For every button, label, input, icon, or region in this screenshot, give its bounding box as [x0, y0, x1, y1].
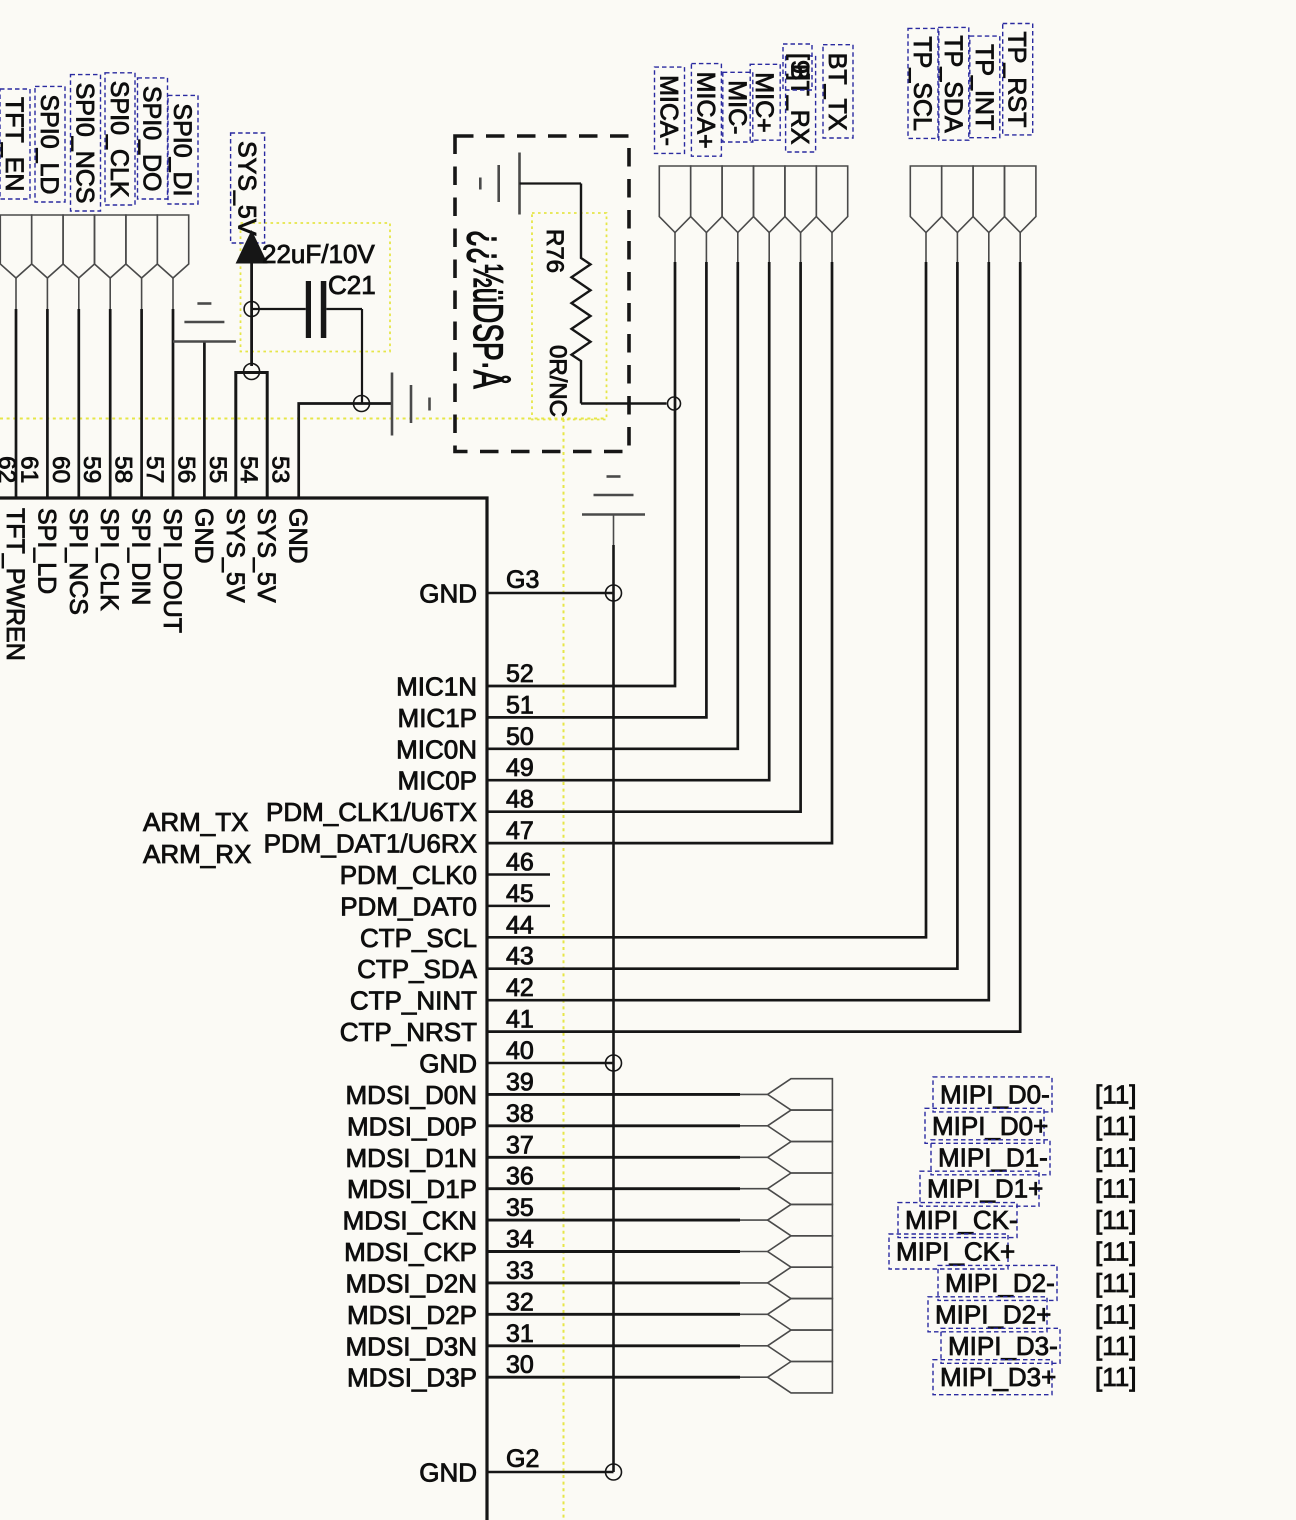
- svg-text:GND: GND: [419, 1049, 477, 1079]
- off-page connector BT_TX: [816, 166, 847, 233]
- ground symbol (R76 top, rotated left): [480, 153, 519, 215]
- svg-text:MDSI_CKN: MDSI_CKN: [343, 1206, 477, 1236]
- svg-text:36: 36: [506, 1163, 534, 1191]
- net label SPI0_NCS: [71, 75, 101, 211]
- pin number 54: [235, 456, 262, 483]
- net label SPI0_DO: [138, 78, 168, 199]
- connector MDSI_D0N flag: [768, 1079, 833, 1110]
- wire SPI0_NCS stub: [78, 278, 80, 309]
- svg-text:0R/NC: 0R/NC: [544, 345, 571, 417]
- wire to C21 left plate: [252, 308, 306, 310]
- highlight box around C21: [241, 223, 391, 352]
- svg-text:59: 59: [78, 456, 105, 483]
- svg-text:MIPI_D3+: MIPI_D3+: [940, 1362, 1056, 1392]
- wire BT_RX stub: [800, 233, 802, 263]
- junction node SYS_5V / C21: [244, 302, 259, 317]
- off-page connector SPI0_DI: [157, 215, 188, 278]
- wire MDSI_D1P: [487, 1187, 740, 1190]
- svg-text:37: 37: [506, 1131, 534, 1159]
- svg-text:49: 49: [506, 754, 534, 782]
- net label MIC+: [750, 64, 780, 140]
- wire TP_SCL down to chip pin: [487, 262, 926, 937]
- net label MIPI_CK-: [898, 1203, 1018, 1238]
- wire MICA+ down to chip pin: [487, 262, 706, 717]
- wire MICA+ stub: [705, 233, 707, 263]
- svg-text:SPI0_LD: SPI0_LD: [35, 94, 63, 194]
- svg-text:MIPI_CK-: MIPI_CK-: [905, 1205, 1018, 1235]
- off-page connector MICA+: [691, 166, 722, 233]
- svg-text:C21: C21: [328, 270, 376, 300]
- DSP block dashed outline: [455, 136, 629, 452]
- pin name SYS_5V (55): [221, 508, 249, 603]
- connector MDSI_D2N flag: [768, 1267, 833, 1298]
- highlight box around R76: [532, 213, 607, 420]
- svg-text:50: 50: [506, 723, 534, 751]
- value label 0R/NC: [544, 345, 571, 417]
- svg-text:SYS_5V: SYS_5V: [233, 141, 261, 236]
- wire MDSI_D3N: [487, 1344, 740, 1347]
- wire SPI0_DO stub: [141, 278, 143, 309]
- svg-text:43: 43: [506, 943, 534, 971]
- wire GND rail vertical: [612, 545, 615, 1472]
- wire C21 down to GND junction: [361, 309, 363, 404]
- wire SPI0_CLK to pin 59: [109, 309, 112, 498]
- svg-text:SPI0_DO: SPI0_DO: [138, 86, 166, 192]
- net label MIPI_D2-: [938, 1265, 1057, 1300]
- svg-text:[11]: [11]: [1095, 1237, 1136, 1267]
- pin name SYS_5V (54): [252, 508, 280, 603]
- svg-text:CTP_SCL: CTP_SCL: [360, 923, 477, 953]
- svg-text:[11]: [11]: [1095, 1079, 1136, 1109]
- chip U1 outline (top edge and right edge): [0, 498, 487, 1520]
- off-page connector MIC-: [722, 166, 753, 233]
- net label SPI0_DI: [168, 95, 198, 204]
- connector MDSI_D2P flag: [768, 1299, 833, 1330]
- pin number 58: [110, 456, 137, 483]
- off-page connector SPI0_CLK: [95, 215, 126, 278]
- svg-text:34: 34: [506, 1226, 534, 1254]
- svg-text:40: 40: [506, 1037, 534, 1065]
- wire pin 53 GND up and right: [299, 404, 392, 499]
- svg-text:MIPI_D3-: MIPI_D3-: [948, 1331, 1058, 1361]
- pin name GND (56): [189, 508, 217, 564]
- svg-text:33: 33: [506, 1257, 534, 1285]
- svg-text:MIPI_CK+: MIPI_CK+: [896, 1237, 1015, 1267]
- svg-text:SPI_DIN: SPI_DIN: [127, 508, 155, 605]
- wire MIC+ stub: [768, 233, 770, 263]
- svg-text:MIPI_D2+: MIPI_D2+: [935, 1299, 1051, 1329]
- svg-text:56: 56: [172, 456, 199, 483]
- net label MIPI_D0+: [925, 1108, 1048, 1143]
- wire TFT_EN stub: [15, 278, 17, 309]
- off-page connector BT_RX: [785, 166, 816, 233]
- reference label R76: [541, 229, 568, 273]
- svg-text:MIC0P: MIC0P: [398, 766, 477, 796]
- wire R76 to MICA- net: [581, 402, 667, 404]
- svg-text:MIC-: MIC-: [723, 80, 751, 134]
- svg-text:[11]: [11]: [1095, 1142, 1136, 1172]
- pin name SPI_DOUT: [158, 508, 186, 633]
- svg-text:SYS_5V: SYS_5V: [252, 508, 280, 603]
- svg-text:TP_INT: TP_INT: [970, 44, 998, 130]
- pin name SPI_CLK: [95, 508, 123, 611]
- svg-text:45: 45: [506, 880, 534, 908]
- off-page connector TP_SDA: [942, 166, 973, 233]
- block title text (garbled) DSP: [465, 230, 512, 389]
- svg-text:MDSI_CKP: MDSI_CKP: [344, 1237, 477, 1267]
- connector MDSI_D1N flag: [768, 1142, 833, 1173]
- wire MIC- stub: [737, 233, 739, 263]
- pin number 61: [15, 456, 42, 483]
- svg-text:MIC+: MIC+: [750, 72, 778, 132]
- svg-text:53: 53: [267, 456, 294, 483]
- svg-text:44: 44: [506, 911, 534, 939]
- svg-text:41: 41: [506, 1006, 534, 1034]
- svg-text:ARM_TX: ARM_TX: [143, 807, 248, 837]
- off-page connector SPI0_NCS: [63, 215, 94, 278]
- wire ground stub: [613, 515, 615, 546]
- wire BT_TX stub: [831, 233, 833, 263]
- svg-text:MIPI_D0-: MIPI_D0-: [940, 1079, 1050, 1109]
- connector MDSI_CKP flag: [768, 1236, 833, 1267]
- svg-text:TP_RST: TP_RST: [1003, 32, 1031, 128]
- pin name SPI_DIN: [127, 508, 155, 605]
- net label MICA-: [655, 67, 685, 153]
- svg-text:TP_SCL: TP_SCL: [908, 36, 936, 131]
- net label MIPI_CK+: [889, 1234, 1015, 1269]
- svg-text:MIPI_D1-: MIPI_D1-: [938, 1142, 1048, 1172]
- net label TP_SDA: [939, 27, 969, 140]
- svg-text:31: 31: [506, 1320, 534, 1348]
- svg-text:46: 46: [506, 849, 534, 877]
- svg-text:SYS_5V: SYS_5V: [221, 508, 249, 603]
- svg-text:MDSI_D2P: MDSI_D2P: [347, 1300, 477, 1330]
- pin name GND (53): [284, 508, 312, 564]
- capacitor C21: [306, 281, 327, 338]
- svg-text:MDSI_D0N: MDSI_D0N: [346, 1080, 477, 1110]
- off-page connector SPI0_DO: [126, 215, 157, 278]
- svg-text:39: 39: [506, 1068, 534, 1096]
- svg-text:MIPI_D1+: MIPI_D1+: [927, 1174, 1043, 1204]
- svg-text:SPI_LD: SPI_LD: [32, 508, 60, 594]
- wire SPI0_NCS to pin 60: [77, 309, 80, 498]
- svg-text:MIPI_D2-: MIPI_D2-: [945, 1268, 1055, 1298]
- junction circle GND node: [354, 396, 370, 412]
- pin number 53: [267, 456, 294, 483]
- resistor R76: [572, 184, 591, 404]
- wire pin 40 GND: [487, 1062, 614, 1065]
- wire TP_RST stub: [1019, 233, 1021, 263]
- svg-text:48: 48: [506, 786, 534, 814]
- off-page connector SPI0_LD: [32, 215, 63, 278]
- wire pin G3 to GND rail: [487, 592, 614, 595]
- wire BT_TX down to chip pin: [487, 262, 832, 843]
- net label SPI0_CLK: [105, 73, 135, 205]
- svg-text:MIC1P: MIC1P: [398, 703, 477, 733]
- svg-text:TP_SDA: TP_SDA: [939, 35, 967, 133]
- wire MDSI_D0N: [487, 1093, 740, 1096]
- svg-text:MIC1N: MIC1N: [396, 672, 477, 702]
- pin number 59: [78, 456, 105, 483]
- svg-text:38: 38: [506, 1100, 534, 1128]
- svg-text:TFT_PWREN: TFT_PWREN: [1, 508, 29, 661]
- svg-text:[9]: [9]: [786, 53, 814, 81]
- wire TFT_EN to pin 62: [15, 309, 18, 498]
- svg-text:MDSI_D3P: MDSI_D3P: [347, 1363, 477, 1393]
- wire SPI0_DI to pin 57: [172, 309, 175, 498]
- wire MDSI_D2N: [487, 1281, 740, 1284]
- pin number 62: [0, 456, 20, 483]
- junction circle R76/MICA-: [668, 397, 681, 410]
- net label MIPI_D3+: [933, 1360, 1056, 1395]
- connector MDSI_D0P flag: [768, 1110, 833, 1141]
- svg-text:GND: GND: [284, 508, 312, 564]
- svg-text:PDM_CLK0: PDM_CLK0: [340, 860, 477, 890]
- junction circle G2: [606, 1464, 622, 1480]
- net label BT_RX: [786, 56, 816, 152]
- wire MDSI_CKN: [487, 1219, 740, 1222]
- pin number 56: [172, 456, 199, 483]
- power symbol SYS_5V (triangle): [236, 230, 268, 264]
- net label MIPI_D2+: [928, 1297, 1051, 1332]
- svg-text:CTP_SDA: CTP_SDA: [357, 954, 478, 984]
- svg-text:[11]: [11]: [1095, 1362, 1136, 1392]
- svg-text:55: 55: [204, 456, 231, 483]
- off-page connector MIC+: [754, 166, 785, 233]
- svg-text:¿¿½üDSP·Å: ¿¿½üDSP·Å: [465, 230, 512, 389]
- connector MDSI_D3N flag: [768, 1330, 833, 1361]
- net label MIC-: [723, 72, 753, 142]
- ground symbol (pin 56, inverted): [173, 304, 236, 342]
- svg-text:SPI0_CLK: SPI0_CLK: [105, 81, 133, 198]
- connector MDSI_D3P flag: [768, 1362, 833, 1393]
- wire TP_RST down to chip pin: [487, 262, 1020, 1032]
- wire MICA- stub: [674, 233, 676, 263]
- pin name SPI_NCS: [64, 508, 92, 615]
- wire SPI0_CLK stub: [109, 278, 111, 309]
- pin name SPI_LD: [32, 508, 60, 594]
- svg-text:[11]: [11]: [1095, 1299, 1136, 1329]
- svg-text:[11]: [11]: [1095, 1174, 1136, 1204]
- svg-text:SPI_NCS: SPI_NCS: [64, 508, 92, 615]
- svg-text:GND: GND: [419, 579, 477, 609]
- svg-text:MDSI_D3N: MDSI_D3N: [346, 1331, 477, 1361]
- svg-text:51: 51: [506, 691, 534, 719]
- ground symbol (GND rail, inverted): [582, 477, 645, 515]
- svg-text:MICA-: MICA-: [655, 75, 683, 146]
- wire C21 right plate: [326, 308, 362, 310]
- svg-text:CTP_NRST: CTP_NRST: [340, 1017, 477, 1047]
- svg-text:PDM_DAT1/U6RX: PDM_DAT1/U6RX: [264, 829, 477, 859]
- svg-text:61: 61: [15, 456, 42, 483]
- svg-text:SPI_DOUT: SPI_DOUT: [158, 508, 186, 633]
- wire pin 56 GND: [203, 342, 206, 499]
- net label TP_RST: [1003, 24, 1033, 135]
- wire MIC+ down to chip pin: [487, 262, 769, 780]
- svg-text:MDSI_D1N: MDSI_D1N: [346, 1143, 477, 1173]
- wire MDSI_D2P: [487, 1313, 740, 1316]
- svg-text:G3: G3: [506, 566, 539, 594]
- svg-text:GND: GND: [419, 1458, 477, 1488]
- wire TP_SDA stub: [956, 233, 958, 263]
- wire MDSI_D0P: [487, 1124, 740, 1127]
- svg-text:22uF/10V: 22uF/10V: [262, 239, 375, 269]
- wire ground to R76: [520, 182, 582, 184]
- connector MDSI_D1P flag: [768, 1173, 833, 1204]
- wire SYS_5V pins 54+55 U-connection: [236, 373, 267, 499]
- junction circle pin 40: [606, 1055, 622, 1071]
- wire MDSI_CKP: [487, 1250, 740, 1253]
- wire TP_SCL stub: [925, 233, 927, 263]
- svg-text:TFT_EN: TFT_EN: [0, 97, 28, 191]
- svg-text:30: 30: [506, 1351, 534, 1379]
- svg-text:CTP_NINT: CTP_NINT: [350, 986, 477, 1016]
- svg-text:PDM_DAT0: PDM_DAT0: [340, 891, 477, 921]
- wire highlight: vertical yellow dashed line: [563, 419, 565, 1520]
- svg-text:[11]: [11]: [1095, 1205, 1136, 1235]
- net label TFT_EN: [0, 89, 30, 199]
- net label MIPI_D1-: [931, 1140, 1050, 1175]
- svg-text:BT_TX: BT_TX: [823, 53, 851, 131]
- svg-text:[11]: [11]: [1095, 1268, 1136, 1298]
- svg-text:52: 52: [506, 660, 534, 688]
- pin number 60: [47, 456, 74, 483]
- net label SPI0_LD: [35, 86, 65, 202]
- off-page connector MICA-: [659, 166, 690, 233]
- wire SPI0_LD to pin 61: [46, 309, 49, 498]
- ground symbol (pin 53, rotated right): [392, 373, 430, 436]
- svg-text:R76: R76: [541, 229, 568, 273]
- svg-text:MDSI_D1P: MDSI_D1P: [347, 1174, 477, 1204]
- connector MDSI_CKN flag: [768, 1204, 833, 1235]
- wire TP_INT down to chip pin: [487, 262, 989, 1000]
- junction circle at pins 54/55: [244, 364, 260, 380]
- net label MIPI_D1+: [920, 1171, 1043, 1206]
- power net label SYS_5V: [231, 133, 265, 243]
- svg-text:42: 42: [506, 974, 534, 1002]
- wire SYS_5V down: [250, 262, 253, 366]
- net label MIPI_D3-: [941, 1328, 1060, 1363]
- svg-text:MIC0N: MIC0N: [396, 734, 477, 764]
- svg-text:32: 32: [506, 1288, 534, 1316]
- wire SPI0_DI stub: [172, 278, 174, 309]
- net label TP_SCL: [908, 28, 938, 138]
- wire TP_INT stub: [988, 233, 990, 263]
- net label MIPI_D0-: [933, 1077, 1052, 1112]
- off-page connector TFT_EN: [0, 215, 31, 278]
- svg-text:54: 54: [235, 456, 262, 483]
- reference [9] (overlapping BT_RX): [783, 44, 814, 90]
- wire MDSI_D1N: [487, 1156, 740, 1159]
- svg-text:MIPI_D0+: MIPI_D0+: [932, 1111, 1048, 1141]
- off-page connector TP_SCL: [910, 166, 941, 233]
- svg-text:SPI_CLK: SPI_CLK: [95, 508, 123, 611]
- off-page connector TP_RST: [1005, 166, 1036, 233]
- svg-text:SPI0_DI: SPI0_DI: [168, 103, 196, 196]
- svg-text:GND: GND: [189, 508, 217, 564]
- svg-text:[11]: [11]: [1095, 1331, 1136, 1361]
- junction circle G3: [606, 585, 622, 601]
- net label BT_TX: [823, 45, 853, 138]
- svg-text:47: 47: [506, 817, 534, 845]
- wire TP_SDA down to chip pin: [487, 262, 957, 969]
- svg-text:SPI0_NCS: SPI0_NCS: [71, 83, 99, 204]
- wire highlight: long yellow dashed line: [0, 418, 607, 420]
- svg-text:MDSI_D2N: MDSI_D2N: [346, 1268, 477, 1298]
- wire MIC- down to chip pin: [487, 262, 738, 749]
- svg-text:ARM_RX: ARM_RX: [143, 839, 251, 869]
- pin number 57: [141, 456, 168, 483]
- svg-text:57: 57: [141, 456, 168, 483]
- wire pin G2 to GND rail: [487, 1471, 614, 1474]
- svg-text:35: 35: [506, 1194, 534, 1222]
- svg-text:PDM_CLK1/U6TX: PDM_CLK1/U6TX: [266, 797, 477, 827]
- svg-text:58: 58: [110, 456, 137, 483]
- pin name TFT_PWREN: [1, 508, 29, 661]
- pin number 55: [204, 456, 231, 483]
- svg-text:MDSI_D0P: MDSI_D0P: [347, 1111, 477, 1141]
- wire MDSI_D3P: [487, 1376, 740, 1379]
- wire SPI0_DO to pin 58: [140, 309, 143, 498]
- svg-text:60: 60: [47, 456, 74, 483]
- svg-text:G2: G2: [506, 1445, 539, 1473]
- svg-text:[11]: [11]: [1095, 1111, 1136, 1141]
- off-page connector TP_INT: [973, 166, 1004, 233]
- wire MICA- down to chip pin: [487, 262, 675, 686]
- wire SPI0_LD stub: [46, 278, 48, 309]
- svg-text:MICA+: MICA+: [691, 72, 719, 149]
- net label TP_INT: [970, 36, 1000, 138]
- wire BT_RX down to chip pin: [487, 262, 801, 812]
- net label MICA+: [691, 64, 721, 157]
